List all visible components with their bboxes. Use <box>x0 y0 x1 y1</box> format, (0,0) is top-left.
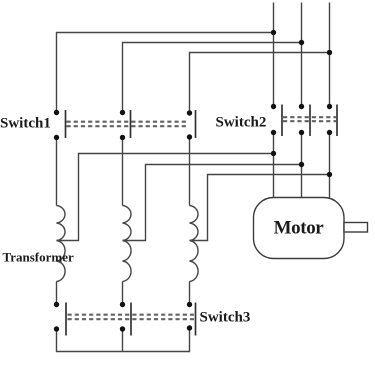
svg-text:Switch1: Switch1 <box>0 116 51 132</box>
node Switch1 pole2 top <box>120 110 125 115</box>
node Switch1 pole2 bottom <box>120 135 125 140</box>
switch S2 blade bar pole 2 <box>309 105 311 137</box>
transformer coil L2 <box>123 206 132 282</box>
switch S1 blade bar pole 3 <box>195 110 197 138</box>
switch S1 blade bar pole 2 <box>130 110 132 138</box>
node Switch2 pole3 bottom <box>327 130 332 135</box>
svg-text:Switch3: Switch3 <box>200 310 251 326</box>
wire Switch2 pole 3 to motor <box>329 133 331 198</box>
wire tap of L1 to motor line A <box>57 154 274 241</box>
wire Switch2 pole 2 to motor <box>301 133 303 198</box>
wire star-point bus below Switch3 <box>57 329 190 352</box>
motor M shaft <box>344 223 368 233</box>
wire Switch3 pole 2 to bus <box>122 329 124 352</box>
node Switch1 pole3 top <box>187 110 192 115</box>
wire phase C branch to Switch1 pole 3 <box>190 53 330 113</box>
node Switch1 pole1 bottom <box>54 135 59 140</box>
node Switch3 pole1 top <box>54 302 59 307</box>
node junction phase B feed <box>299 40 304 45</box>
node Switch3 pole3 bottom <box>187 325 192 330</box>
switch S3 blade bar pole 3 <box>195 303 197 336</box>
wire phase B supply vertical <box>301 3 303 107</box>
switch S1 dashed linkage <box>67 122 188 127</box>
switch S3 blade bar pole 1 <box>65 303 67 336</box>
svg-text:Motor: Motor <box>274 218 325 239</box>
node junction phase C feed <box>327 50 332 55</box>
node junction tap B on motor line <box>299 162 304 167</box>
node Switch3 pole3 top <box>187 302 192 307</box>
wire coil L2 to Switch3 pole 2 <box>122 282 124 305</box>
wire Switch1 pole 2 to transformer coil L2 <box>122 138 124 206</box>
switch S3 dashed linkage <box>68 315 195 320</box>
node Switch3 pole1 bottom <box>54 326 59 331</box>
wire coil L3 to Switch3 pole 3 <box>189 282 191 305</box>
node Switch3 pole2 bottom <box>120 326 125 331</box>
wire tap of L3 to motor line C <box>190 175 330 241</box>
transformer coil L1 <box>57 206 66 282</box>
wire phase A branch to Switch1 pole 1 <box>57 33 274 113</box>
node Switch3 pole2 top <box>120 302 125 307</box>
node Switch2 pole1 top <box>271 104 276 109</box>
svg-text:Switch2: Switch2 <box>216 115 267 131</box>
wire Switch1 pole 3 to transformer coil L3 <box>189 138 191 206</box>
node junction tap C on motor line <box>327 172 332 177</box>
motor M body <box>254 198 345 259</box>
node Switch2 pole2 top <box>299 104 304 109</box>
transformer coil L3 <box>190 206 199 282</box>
node Switch2 pole2 bottom <box>299 130 304 135</box>
node Switch2 pole3 top <box>327 104 332 109</box>
wire coil L1 to Switch3 pole 1 <box>56 282 58 305</box>
switch S2 dashed linkage <box>283 117 336 121</box>
node junction tap A on motor line <box>271 151 276 156</box>
wire Switch2 pole 1 to motor <box>273 133 275 198</box>
switch S3 blade bar pole 2 <box>130 303 132 336</box>
wire Switch1 pole 1 to transformer coil L1 <box>56 138 58 206</box>
switch S2 blade bar pole 1 <box>281 105 283 137</box>
node Switch2 pole1 bottom <box>271 130 276 135</box>
svg-text:Transformer: Transformer <box>3 250 74 265</box>
wire phase B branch to Switch1 pole 2 <box>123 43 302 113</box>
node Switch1 pole3 bottom <box>187 134 192 139</box>
wire phase C supply vertical <box>329 3 331 107</box>
wire tap of L2 to motor line B <box>123 165 302 241</box>
switch S1 blade bar pole 1 <box>65 110 67 138</box>
node junction phase A feed <box>271 30 276 35</box>
wire phase A supply vertical <box>273 3 275 107</box>
node Switch1 pole1 top <box>54 110 59 115</box>
switch S2 blade bar pole 3 <box>336 105 338 137</box>
